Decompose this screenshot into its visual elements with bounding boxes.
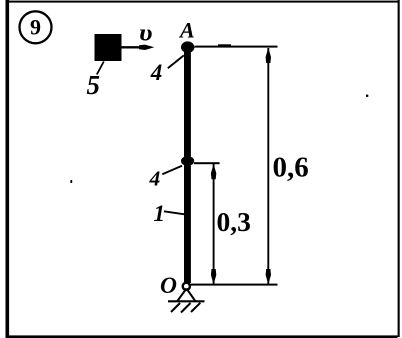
support hatch stroke 1 xyxy=(171,303,180,312)
midpoint node dot xyxy=(181,156,194,166)
block 5 (sliding mass, filled square) xyxy=(95,34,122,61)
pin support triangle xyxy=(177,289,196,302)
leader line of label 5 xyxy=(97,62,104,75)
extension line from A xyxy=(195,46,278,48)
svg-text:0,6: 0,6 xyxy=(273,151,309,183)
point A node dot xyxy=(181,41,194,53)
border frame bottom xyxy=(6,335,398,338)
svg-text:4: 4 xyxy=(150,60,163,85)
leader line of middle label 4 xyxy=(162,166,182,174)
svg-text:0,3: 0,3 xyxy=(217,206,251,237)
rod 1 (vertical bar O-A) xyxy=(184,46,191,283)
dimension line 0,3 xyxy=(213,164,215,284)
scan speck left xyxy=(70,180,72,183)
svg-text:A: A xyxy=(178,18,195,43)
figure number circle 9 xyxy=(20,11,52,43)
support hatch stroke 3 xyxy=(191,303,200,312)
svg-text:1: 1 xyxy=(154,201,166,226)
svg-text:4: 4 xyxy=(149,167,161,191)
support ground line xyxy=(168,300,205,302)
support hatch stroke 2 xyxy=(181,303,191,313)
svg-text:υ: υ xyxy=(139,21,153,47)
border frame top xyxy=(6,1,400,3)
pin joint circle at O xyxy=(183,283,190,290)
dimension line 0,6 xyxy=(267,48,269,284)
svg-text:9: 9 xyxy=(30,15,41,40)
border frame right xyxy=(398,0,400,337)
leader line of label 1 xyxy=(164,211,185,214)
base extension line at O xyxy=(191,284,278,286)
scan speck right xyxy=(366,95,368,97)
leader line of upper label 4 xyxy=(168,55,184,68)
svg-text:O: O xyxy=(160,273,177,299)
svg-text:5: 5 xyxy=(87,70,101,100)
border frame left xyxy=(6,0,10,338)
extension line from midpoint xyxy=(194,162,220,164)
velocity arrow v xyxy=(122,46,147,48)
